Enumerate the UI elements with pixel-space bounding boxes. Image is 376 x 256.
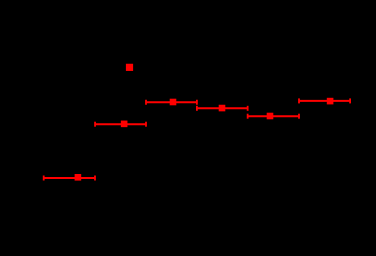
left cap P6: [298, 98, 300, 103]
data point P6 (error bar + square marker, rightmost bin): [299, 98, 350, 105]
left cap P3: [145, 100, 147, 105]
marker P4: [219, 105, 226, 112]
marker P2: [121, 121, 128, 128]
data point P0 (isolated square marker, no visible error bar): [126, 64, 133, 71]
data point P5 (error bar + square marker, fifth bin): [248, 113, 299, 120]
right cap P1: [94, 176, 96, 181]
wire: horizontal error line P4: [197, 107, 248, 109]
right cap P3: [196, 100, 198, 105]
data point P4 (error bar + square marker, fourth bin): [197, 105, 248, 112]
marker P5: [267, 113, 274, 120]
data point P1 (error bar + square marker, bottom-left bin): [44, 174, 95, 181]
data point P2 (error bar + square marker, second bin): [95, 121, 146, 128]
wire: horizontal error line P5: [248, 115, 299, 117]
left cap P1: [43, 176, 45, 181]
left cap P5: [247, 114, 249, 119]
marker P3: [170, 99, 177, 106]
right cap P2: [145, 122, 147, 127]
wire: horizontal error line P3: [146, 101, 197, 103]
right cap P5: [298, 114, 300, 119]
wire: horizontal error line P6: [299, 100, 350, 102]
marker P1: [75, 174, 82, 181]
wire: horizontal error line P2: [95, 123, 146, 125]
right cap P6: [349, 98, 351, 103]
data point P3 (error bar + square marker, third bin): [146, 99, 197, 106]
left cap P4: [196, 106, 198, 111]
left cap P2: [94, 122, 96, 127]
marker P6: [327, 98, 334, 105]
wire: horizontal error line P1: [44, 177, 95, 179]
right cap P4: [247, 106, 249, 111]
